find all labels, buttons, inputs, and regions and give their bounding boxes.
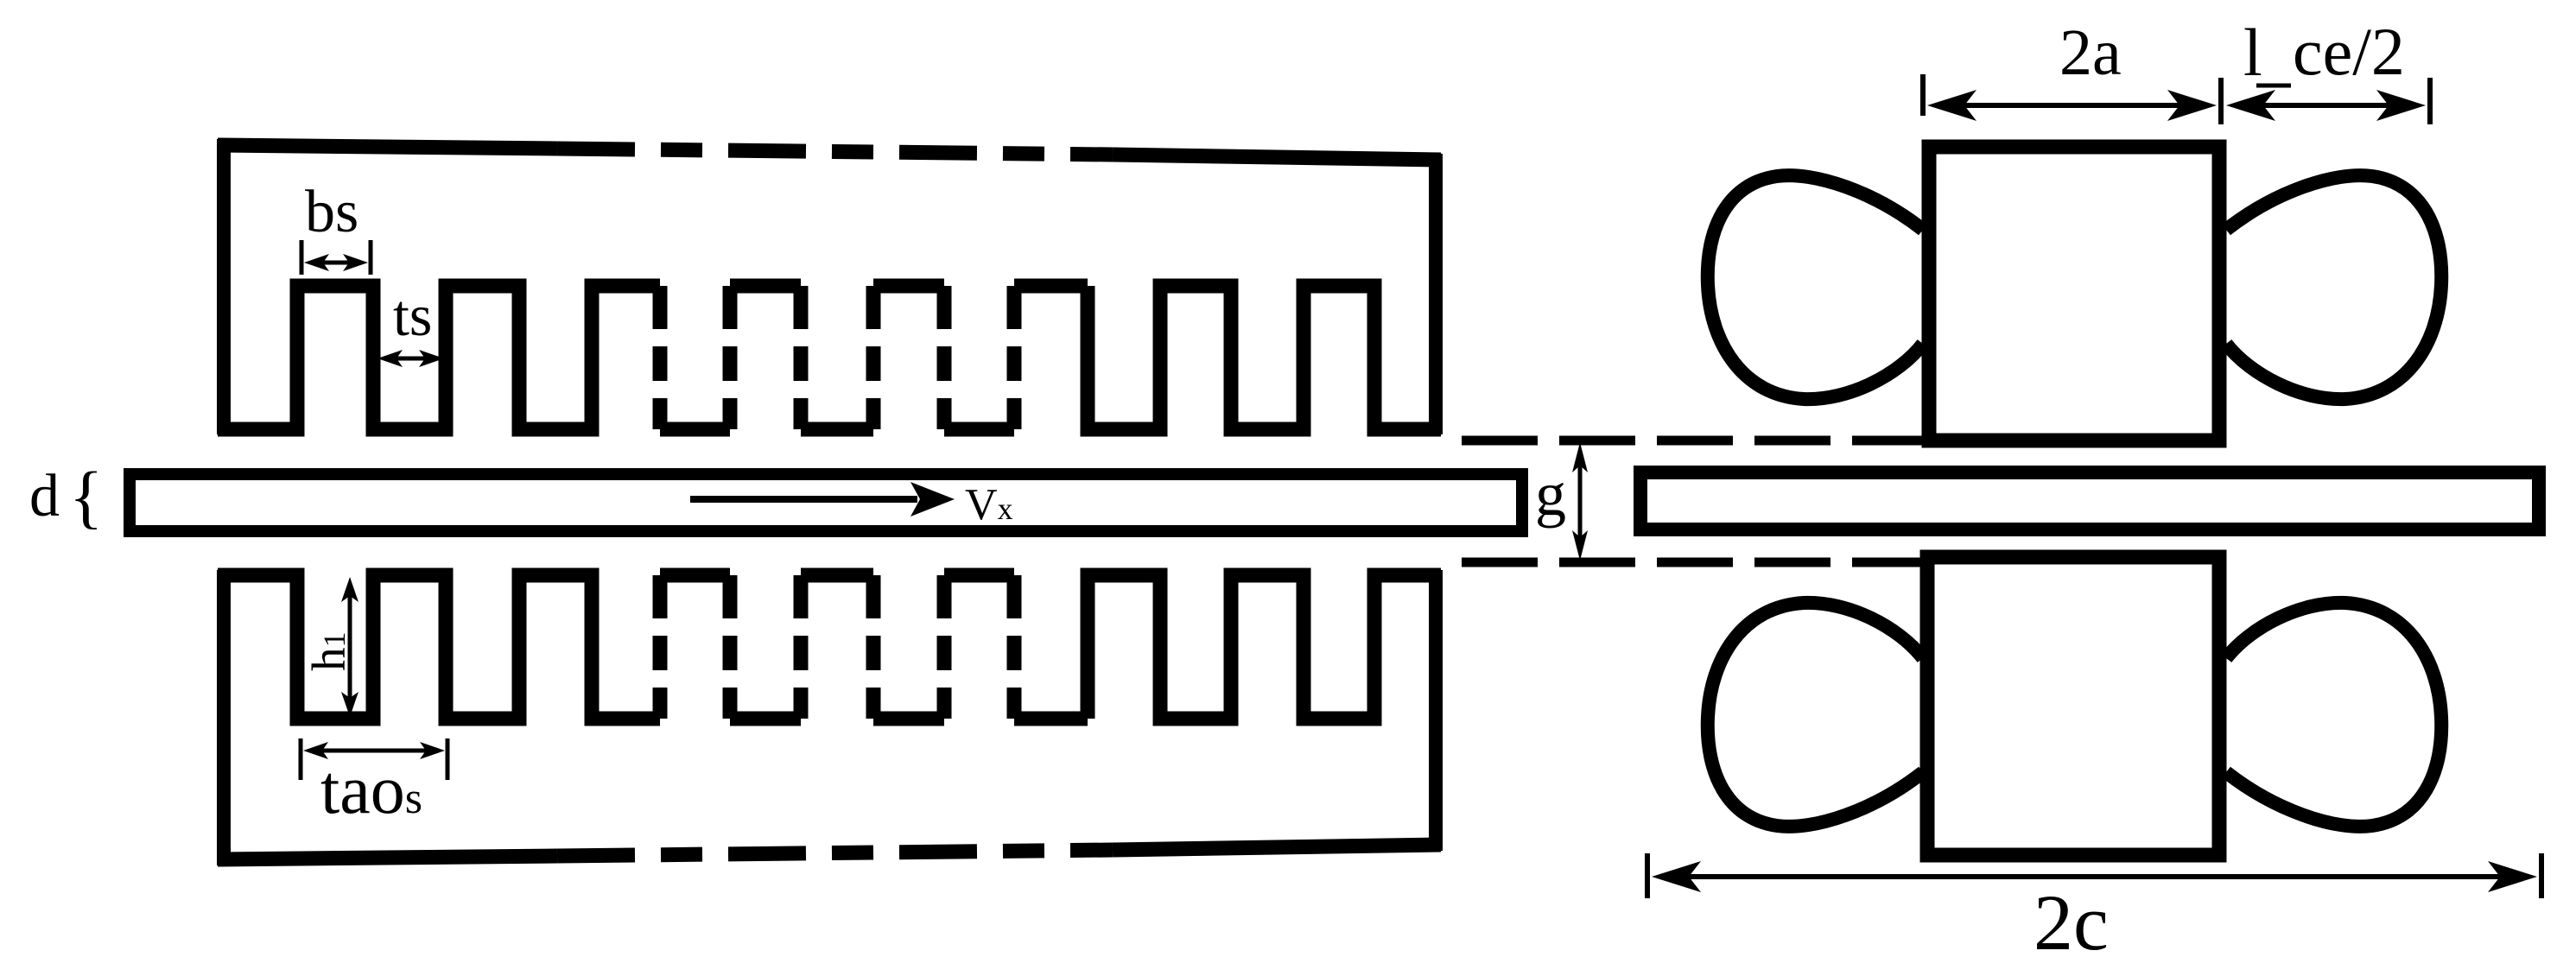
- wire dashed slot walls middle: [660, 575, 1014, 719]
- wire bottom edge dashed middle: [557, 850, 1113, 856]
- wire comb solid left part: [218, 286, 660, 429]
- wire teeth tops middle (solid): [660, 568, 1014, 583]
- bs dimension: [301, 240, 371, 275]
- wire top edge dashed middle: [557, 149, 1113, 155]
- svg-text:d: d: [29, 463, 60, 529]
- wire comb solid right part: [1088, 286, 1441, 429]
- wire right edge: [1429, 154, 1443, 434]
- wire slot caps middle (solid): [730, 279, 1088, 294]
- wire comb solid left part: [218, 575, 660, 719]
- top stator teeth comb: [218, 286, 1441, 429]
- taos dimension: [301, 738, 447, 780]
- coil end winding bottom-right loop: [2226, 603, 2441, 827]
- wire comb solid right part: [1088, 575, 1441, 719]
- 2c dimension: [1647, 853, 2541, 898]
- node air gap dashed line top: [1462, 436, 1922, 446]
- vx arrow: [690, 482, 955, 517]
- coil end winding top-left loop: [1708, 175, 1923, 399]
- secondary plate left (reaction plate): [130, 474, 1522, 531]
- wire top edge solid right: [1113, 155, 1441, 160]
- wire slot bottoms middle (solid): [730, 712, 1088, 726]
- g dimension arrow: [1572, 442, 1588, 561]
- wire tooth bottoms middle (solid): [660, 422, 1014, 437]
- bottom stator teeth comb: [218, 575, 1441, 719]
- node air gap dashed line bottom: [1462, 558, 1920, 567]
- wire left edge: [217, 139, 231, 434]
- bottom stator core outline: [218, 570, 1441, 865]
- coil end winding top-right loop: [2226, 175, 2441, 399]
- wire bottom edge solid left: [218, 856, 557, 859]
- svg-text:{: {: [69, 457, 103, 536]
- core cross-section bottom square: [1927, 557, 2219, 855]
- svg-text:g: g: [1535, 459, 1566, 529]
- secondary plate right: [1640, 472, 2539, 529]
- coil end winding bottom-left loop: [1708, 603, 1923, 827]
- ts dimension: [387, 357, 435, 361]
- wire top edge solid left: [218, 145, 557, 149]
- svg-text:ts: ts: [393, 282, 432, 348]
- svg-text:bs: bs: [305, 179, 358, 245]
- wire bottom edge solid right: [1113, 845, 1441, 850]
- wire left edge: [217, 570, 231, 865]
- svg-text:2a: 2a: [2059, 16, 2122, 89]
- 2a dimension: [1923, 74, 2221, 124]
- svg-text:l: l: [2243, 15, 2262, 90]
- svg-text:ce/2: ce/2: [2293, 14, 2405, 89]
- h1 dimension: [348, 587, 352, 707]
- top stator core outline: [218, 139, 1441, 434]
- core cross-section top square: [1929, 147, 2219, 440]
- wire right edge: [1429, 570, 1443, 851]
- ce/2 dimension: [2239, 78, 2430, 124]
- svg-text:2c: 2c: [2034, 878, 2109, 957]
- wire dashed slot walls middle: [660, 286, 1014, 429]
